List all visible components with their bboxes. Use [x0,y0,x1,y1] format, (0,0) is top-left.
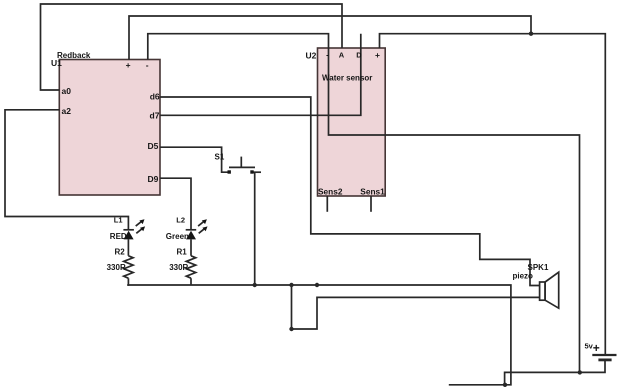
svg-text:Sens1: Sens1 [360,186,385,196]
svg-text:D: D [356,51,362,60]
svg-text:a0: a0 [62,86,72,96]
svg-text:-: - [326,51,329,60]
svg-text:330R: 330R [107,263,126,272]
svg-text:U2: U2 [306,51,317,61]
svg-text:D9: D9 [148,174,159,184]
svg-text:L2: L2 [176,216,185,225]
IC U2 water sensor [318,48,386,196]
node junction battery minus [578,370,582,374]
svg-text:piezo: piezo [513,272,534,281]
wire D5 to switch S1 [160,147,229,172]
wire a2 to LED L1 [5,110,128,230]
svg-text:R1: R1 [177,248,188,257]
battery 5v [592,355,616,360]
svg-text:RED: RED [110,232,127,241]
svg-text:a2: a2 [62,106,72,116]
wire U1 + up and right [129,16,531,60]
svg-text:Water sensor: Water sensor [322,74,372,83]
wire L2 to R1 [190,239,192,255]
wire battery minus line [505,361,605,385]
svg-text:L1: L1 [114,216,123,225]
LED L1 (RED) [123,219,145,239]
wire Sens1 stub [370,196,372,212]
LED L2 (Green) [186,219,208,239]
wire ground rail [127,285,511,385]
svg-text:Sens2: Sens2 [318,186,343,196]
wire Sens2 stub [326,196,328,212]
resistor R1 [186,256,195,278]
switch S1 [228,157,256,174]
svg-text:Green: Green [166,232,189,241]
svg-text:R2: R2 [115,248,126,257]
node junction jog bottom [289,327,293,331]
wire jog speaker minus to rail [292,285,540,329]
op-amp U1 [59,60,160,196]
svg-text:S1: S1 [215,153,225,162]
svg-text:D5: D5 [148,141,159,151]
wire U1 - to U2 - then to battery minus [148,34,580,373]
wire d7 to U2 D [160,34,361,116]
resistor R2 [124,256,133,278]
svg-text:A: A [339,51,345,60]
wire U2 + to battery plus (5v rail) [380,34,606,355]
node junction S1 on rail [253,283,257,287]
wire D9 to LED L2 [160,178,191,230]
wire R2 to rail [127,278,128,285]
speaker SPK1 piezo [540,272,559,308]
node junction jog top on rail [289,283,293,287]
wire L1 to R2 [127,239,129,255]
wire R1 to rail [190,278,192,285]
svg-text:+: + [593,341,600,355]
svg-text:-: - [146,60,149,70]
node endpoint dot on rail [315,283,319,287]
svg-text:330R: 330R [169,263,188,272]
wire S1 to ground rail [252,171,261,173]
wire d6 to speaker plus [160,97,540,286]
svg-text:d7: d7 [150,110,160,120]
svg-text:+: + [126,60,131,70]
node junction at + rail top [529,32,533,36]
node junction ground bottom [503,383,507,387]
svg-text:+: + [375,50,380,60]
wire a0 to A (net a0-A) [41,4,343,90]
svg-text:d6: d6 [150,91,160,101]
svg-text:Redback: Redback [57,51,91,60]
